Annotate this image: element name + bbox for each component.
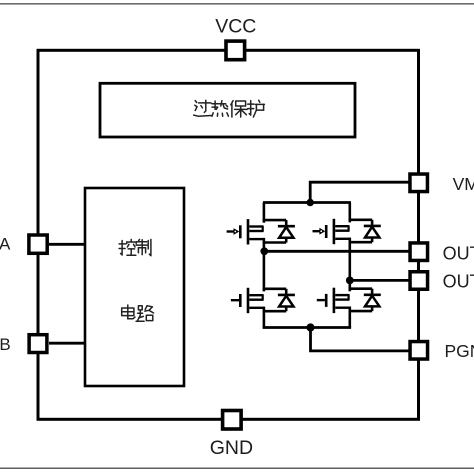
svg-text:OUT1: OUT1 — [443, 244, 474, 264]
svg-text:A: A — [0, 235, 11, 254]
svg-text:PGND: PGND — [445, 341, 474, 361]
svg-text:OUT2: OUT2 — [443, 272, 474, 292]
svg-text:GND: GND — [210, 437, 253, 459]
svg-text:VM: VM — [453, 174, 474, 194]
svg-text:B: B — [0, 335, 11, 354]
svg-text:VCC: VCC — [215, 16, 256, 38]
